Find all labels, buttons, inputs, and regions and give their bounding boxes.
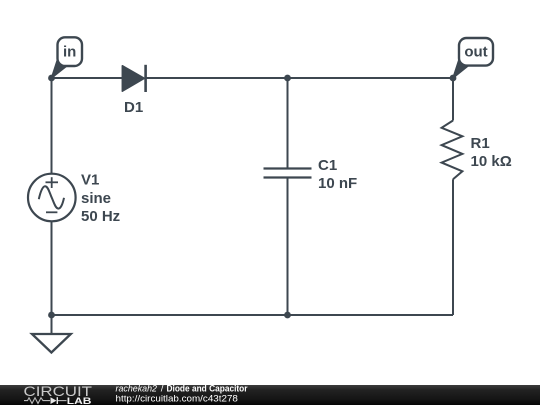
svg-text:10 kΩ: 10 kΩ xyxy=(471,153,512,170)
svg-text:out: out xyxy=(464,44,487,61)
flag in xyxy=(52,37,83,78)
node capacitor top junction dot xyxy=(284,75,291,82)
svg-text:C1: C1 xyxy=(318,157,337,174)
flag out xyxy=(453,38,493,78)
svg-text:50 Hz: 50 Hz xyxy=(81,208,120,225)
node capacitor bottom junction dot xyxy=(284,312,291,319)
wire right lower (R1 to bottom rail) xyxy=(452,179,454,315)
svg-text:sine: sine xyxy=(81,190,111,207)
svg-text:R1: R1 xyxy=(471,135,490,152)
wire right upper (out node to R1) xyxy=(452,78,454,121)
svg-text:in: in xyxy=(63,44,76,61)
wire bottom rail xyxy=(52,314,454,316)
wire top segment left of diode xyxy=(52,77,123,79)
svg-text:V1: V1 xyxy=(81,171,99,188)
resistor R1 xyxy=(442,121,463,180)
node ground junction dot xyxy=(48,312,55,319)
wire left lower (V1 to bottom rail) xyxy=(51,221,53,315)
diode D1 xyxy=(122,65,145,92)
footer bar xyxy=(0,385,540,405)
svg-text:LAB: LAB xyxy=(67,396,92,405)
wire middle upper (top rail to C1) xyxy=(287,78,289,169)
capacitor C1 xyxy=(264,169,312,178)
footer logo wire with resistor and diode xyxy=(24,397,67,404)
node out junction dot xyxy=(450,75,457,82)
node in: junction dot xyxy=(48,75,55,82)
svg-text:D1: D1 xyxy=(124,99,143,116)
wire middle lower (C1 to bottom rail) xyxy=(287,178,289,316)
svg-text:http://circuitlab.com/c43t278: http://circuitlab.com/c43t278 xyxy=(116,393,238,404)
svg-text:10 nF: 10 nF xyxy=(318,175,357,192)
wire top segment right of diode xyxy=(146,77,454,79)
wire left upper (node in to V1) xyxy=(51,78,53,174)
voltage source V1 xyxy=(28,174,76,222)
ground xyxy=(32,315,71,353)
